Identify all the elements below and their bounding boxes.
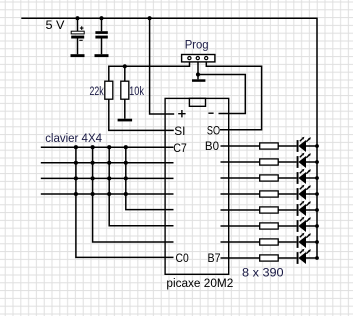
svg-text:clavier 4X4: clavier 4X4	[45, 131, 102, 145]
svg-text:picaxe 20M2: picaxe 20M2	[166, 276, 233, 290]
svg-text:C0: C0	[176, 251, 189, 265]
svg-text:B0: B0	[205, 139, 219, 153]
svg-text:5 V: 5 V	[46, 18, 66, 32]
svg-text:Prog: Prog	[185, 37, 209, 51]
svg-text:8 x 390: 8 x 390	[242, 266, 284, 280]
svg-text:10k: 10k	[129, 84, 145, 98]
svg-text:SO: SO	[207, 123, 220, 137]
svg-text:SI: SI	[174, 124, 185, 138]
svg-text:22k: 22k	[90, 84, 105, 98]
svg-text:C7: C7	[173, 141, 187, 155]
svg-text:B7: B7	[208, 251, 221, 265]
